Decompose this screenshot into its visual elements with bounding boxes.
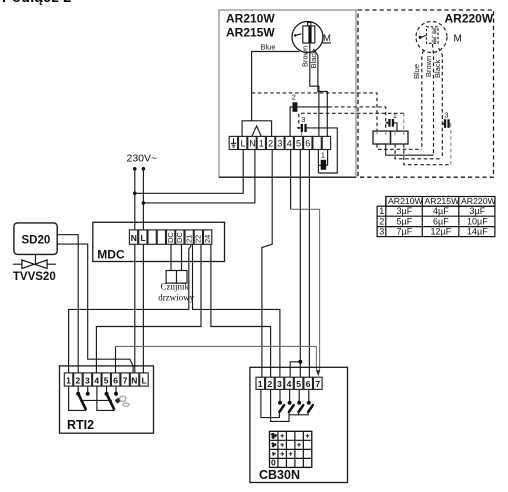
terminal strip CB30N <box>256 377 322 389</box>
svg-text:3: 3 <box>277 139 282 149</box>
svg-text:7: 7 <box>123 375 128 385</box>
wire AR-2 to CB30N-1 <box>262 150 272 378</box>
cropped page title text <box>2 0 112 8</box>
grid mark r1c5 <box>306 434 310 438</box>
wire MDC-DC1 to sensor <box>170 244 172 270</box>
box MDC <box>93 222 225 261</box>
svg-text:RTI2: RTI2 <box>67 418 94 432</box>
svg-text:Czujnik: Czujnik <box>161 282 190 292</box>
arrowhead into CB30N-7 <box>316 370 320 376</box>
svg-text:1: 1 <box>258 379 263 389</box>
svg-text:12µF: 12µF <box>431 227 452 237</box>
dashed wire Brown (AR220W) <box>424 44 434 155</box>
svg-text:Black: Black <box>433 59 442 78</box>
svg-text:3: 3 <box>444 111 448 120</box>
svg-text:3: 3 <box>301 115 305 124</box>
svg-text:14µF: 14µF <box>467 227 488 237</box>
svg-text:AR210W: AR210W <box>388 196 424 206</box>
svg-text:2: 2 <box>76 375 81 385</box>
gray wire AR-4 to CB30N-7 <box>291 209 320 372</box>
CB30N switch blade 2 <box>289 405 294 412</box>
svg-text:DC: DC <box>175 232 184 243</box>
svg-text:AR210W: AR210W <box>226 12 275 26</box>
svg-text:3: 3 <box>85 375 90 385</box>
wire SD20 to RTI2-2 <box>57 235 78 373</box>
RTI2 contact stubs and dots <box>76 386 118 396</box>
capacitor 3 (AR220W) <box>442 111 451 165</box>
svg-text:4: 4 <box>287 139 292 149</box>
thermal contact symbol over N-1 <box>252 126 261 136</box>
svg-text:N: N <box>249 139 256 149</box>
terminal strip RTI2 <box>64 373 148 386</box>
svg-text:AR215W: AR215W <box>226 26 275 40</box>
terminal strip MDC <box>129 230 212 244</box>
svg-text:CB30N: CB30N <box>259 468 300 482</box>
svg-text:3µF: 3µF <box>397 206 413 216</box>
box AR210W/AR215W <box>219 10 356 177</box>
svg-text:L: L <box>142 375 147 385</box>
wire MDC-21 to CB30N-3 <box>193 244 280 377</box>
CB30N switch blade 4 <box>308 405 313 412</box>
capacitor 1 (AR220W) <box>386 111 397 131</box>
svg-text:1: 1 <box>259 139 264 149</box>
CB30N switch blade 1 <box>279 405 284 412</box>
RTI2 switch arm 1 <box>78 394 85 409</box>
capacitor 1 (AR210W) <box>318 150 327 170</box>
CB30N switch blade 3 <box>299 405 304 412</box>
svg-text:1: 1 <box>321 151 325 160</box>
grid mark r3c3 <box>289 452 293 456</box>
svg-text:AR220W: AR220W <box>461 196 497 206</box>
dashed wire cap2 to AR220W <box>329 107 386 131</box>
svg-text:21: 21 <box>184 235 193 243</box>
terminal block B (AR220W) <box>391 131 409 144</box>
RTI2 wire term1 to arm1 <box>69 386 87 410</box>
svg-text:230V~: 230V~ <box>127 153 158 165</box>
svg-text:Brown: Brown <box>424 56 433 77</box>
CB30N wire term1 to blade1 pivot <box>261 389 280 417</box>
svg-text:5µF: 5µF <box>397 216 413 226</box>
svg-text:1: 1 <box>66 375 71 385</box>
svg-text:3µF: 3µF <box>470 206 486 216</box>
CB30N wire term2 to blade2 pivot <box>271 389 289 421</box>
wire MDC-22 to RTI2-4 <box>96 244 201 373</box>
wire block to Brown <box>386 144 434 155</box>
wire AR-4 down <box>290 150 292 210</box>
grid mark r2c2 <box>280 443 284 447</box>
svg-text:7µF: 7µF <box>397 227 413 237</box>
junction dot <box>133 192 137 196</box>
CB30N blade3 pivot hook <box>289 412 299 415</box>
svg-text:Black: Black <box>309 50 318 69</box>
svg-text:6: 6 <box>305 139 310 149</box>
grid mark r3c2 <box>280 452 284 456</box>
wire Black (AR210W) <box>309 49 327 136</box>
svg-text:3: 3 <box>277 379 282 389</box>
ground symbol terminal <box>231 138 236 147</box>
box CB30N <box>250 367 348 482</box>
svg-text:7: 7 <box>315 379 320 389</box>
wire MDC-21 to RTI2-1 <box>69 244 191 373</box>
wire MDC-24 to CB30N-2 <box>211 244 271 377</box>
svg-text:M: M <box>454 34 462 45</box>
valve TVVS20 <box>13 254 56 282</box>
fan icon small <box>272 452 276 456</box>
svg-text:5: 5 <box>296 139 301 149</box>
grid mark r2c4 <box>297 443 301 447</box>
dashed wire cap select 2 <box>252 93 377 131</box>
box SD20 <box>14 223 57 255</box>
svg-text:L: L <box>241 139 246 149</box>
wire AR-L to 230V <box>135 150 243 194</box>
svg-text:M: M <box>323 33 331 44</box>
dashed wire Blue (AR220W) <box>412 51 423 150</box>
wire e1 cell down <box>317 150 319 174</box>
RTI2 manual hand symbol <box>115 396 130 406</box>
svg-text:AR220W: AR220W <box>445 12 494 26</box>
svg-text:6: 6 <box>306 379 311 389</box>
svg-text:1: 1 <box>393 111 397 120</box>
junction dot <box>142 201 146 205</box>
RTI2 coupling bar <box>80 399 112 401</box>
svg-text:2: 2 <box>292 93 296 102</box>
CB30N blade4 pivot hook <box>299 412 309 415</box>
svg-text:10µF: 10µF <box>467 216 488 226</box>
svg-text:N: N <box>131 375 137 385</box>
dashed wire cap3 line to AR220W <box>299 113 404 123</box>
grid mark r1c2 <box>280 434 284 438</box>
svg-text:24: 24 <box>203 235 212 243</box>
wire SD20 to RTI2-N <box>57 244 133 373</box>
svg-text:Blue: Blue <box>412 64 421 79</box>
svg-text:0: 0 <box>271 458 276 468</box>
RTI2 wire term4 to arm2 <box>97 386 115 410</box>
capacitor 2 <box>292 93 298 112</box>
CB30N speed grid <box>270 431 312 467</box>
svg-text:N: N <box>131 233 137 243</box>
capacitor 3 (AR210W) <box>297 115 310 137</box>
svg-text:22: 22 <box>194 235 203 243</box>
dashed wire Black (AR220W) <box>433 48 443 159</box>
wire Brown (AR210W) <box>300 43 319 136</box>
svg-text:6µF: 6µF <box>433 216 449 226</box>
terminal block A (AR220W) <box>373 131 391 144</box>
wire Blue (AR210W) <box>252 43 300 121</box>
door sensor box <box>158 271 194 303</box>
dashed wire block to Black <box>395 144 442 159</box>
motor M (AR210W) <box>292 22 331 53</box>
box AR220W dashed <box>358 10 494 177</box>
dashed wire block to Blue <box>377 144 422 149</box>
dashed wire block to cap3 <box>404 144 451 165</box>
svg-text:2: 2 <box>268 139 273 149</box>
svg-text:3: 3 <box>379 227 384 237</box>
wire AR-N to 230V <box>143 150 255 203</box>
svg-text:4: 4 <box>287 379 292 389</box>
wire cap2 to terminal 4 <box>290 107 328 136</box>
svg-text:Blue: Blue <box>261 43 276 52</box>
gray wire RTI2-6 to CB30N-7 <box>115 346 117 373</box>
box RTI2 <box>60 366 154 433</box>
RTI2 switch arm 2 <box>107 394 114 409</box>
motor M (AR220W) <box>416 22 462 53</box>
wire loop cap3 to cap1 <box>309 128 337 173</box>
svg-text:6: 6 <box>113 375 118 385</box>
wire AR-6 to CB30N-6 <box>308 150 310 378</box>
capacitor value table <box>377 196 496 237</box>
svg-text:DC: DC <box>166 232 175 243</box>
230V feed wire N <box>133 167 137 373</box>
svg-text:4: 4 <box>94 375 99 385</box>
svg-text:SD20: SD20 <box>22 235 51 247</box>
svg-text:L: L <box>141 233 146 243</box>
svg-text:AR215W: AR215W <box>425 196 461 206</box>
svg-text:2: 2 <box>268 379 273 389</box>
CB30N branch term5 to term4 <box>290 360 302 377</box>
svg-text:1: 1 <box>379 206 384 216</box>
svg-text:2: 2 <box>379 216 384 226</box>
svg-text:MDC: MDC <box>97 247 125 261</box>
wire MDC-DC2 to sensor <box>181 244 183 270</box>
CB30N contact stubs and dots <box>278 389 311 404</box>
fan icon medium <box>271 442 276 448</box>
jumper bracket L to 2 <box>242 121 272 137</box>
svg-text:Brown: Brown <box>300 46 309 67</box>
fan icon large <box>270 432 276 439</box>
230V feed wire L <box>142 167 146 373</box>
wire AR-5 to CB30N-5 <box>299 150 301 378</box>
svg-text:4µF: 4µF <box>433 206 449 216</box>
terminal strip AR210W <box>229 136 330 149</box>
svg-text:TVVS20: TVVS20 <box>13 271 56 283</box>
svg-text:5: 5 <box>296 379 301 389</box>
svg-text:5: 5 <box>104 375 109 385</box>
